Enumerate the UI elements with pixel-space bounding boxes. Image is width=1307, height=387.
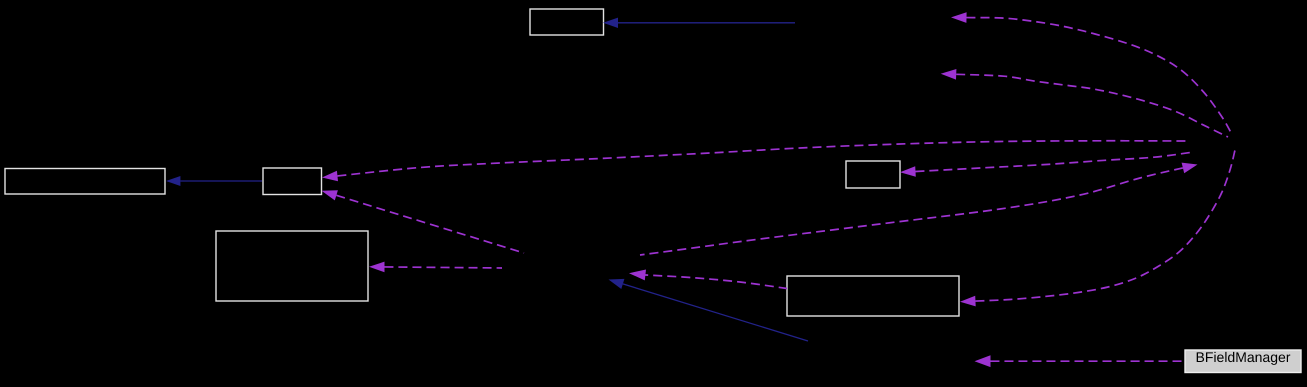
- dashed edge P10 (BFieldManager to invisible node at left): [975, 355, 1186, 367]
- dashed edge P7 (invisible mid node to right node arrow): [640, 163, 1198, 255]
- dashed edge P5 (invisible mid node to B4 arrow): [369, 262, 502, 273]
- dashed edge P2 (right node to second arrow): [941, 69, 1228, 137]
- dashed edge P4 (invisible mid node to B3 lower arrow): [322, 190, 525, 253]
- dashed edge P1 (right node to top-left arrow): [951, 12, 1232, 134]
- node box B7 BFieldManager (main node): [1185, 350, 1301, 373]
- dashed edge P6 (right node to B5 arrow): [900, 153, 1190, 177]
- node box B2 (left wide, unlabeled class): [5, 169, 165, 195]
- node box B5 (middle-right small, unlabeled class): [846, 161, 900, 188]
- dashed edge P8 (B6 to invisible mid node arrow): [629, 270, 787, 289]
- dashed edge P9 (right node arc down to B6 arrow): [960, 150, 1235, 306]
- blue inheritance edge E3 (invisible bottom node to invisible mid node): [609, 279, 809, 341]
- node box B4 (large multi-line, unlabeled class): [216, 231, 368, 301]
- node box B6 (bottom middle, unlabeled class): [787, 276, 959, 316]
- blue inheritance edge E1 (invisible node to top box B1): [603, 18, 795, 28]
- blue inheritance edge E2 (B3 to B2): [166, 176, 262, 186]
- node box B1 (top, unlabeled class): [530, 9, 604, 35]
- node box B3 (small, unlabeled class): [263, 168, 322, 195]
- dashed edge P3 (right node to B3 upper arrow): [322, 141, 1186, 181]
